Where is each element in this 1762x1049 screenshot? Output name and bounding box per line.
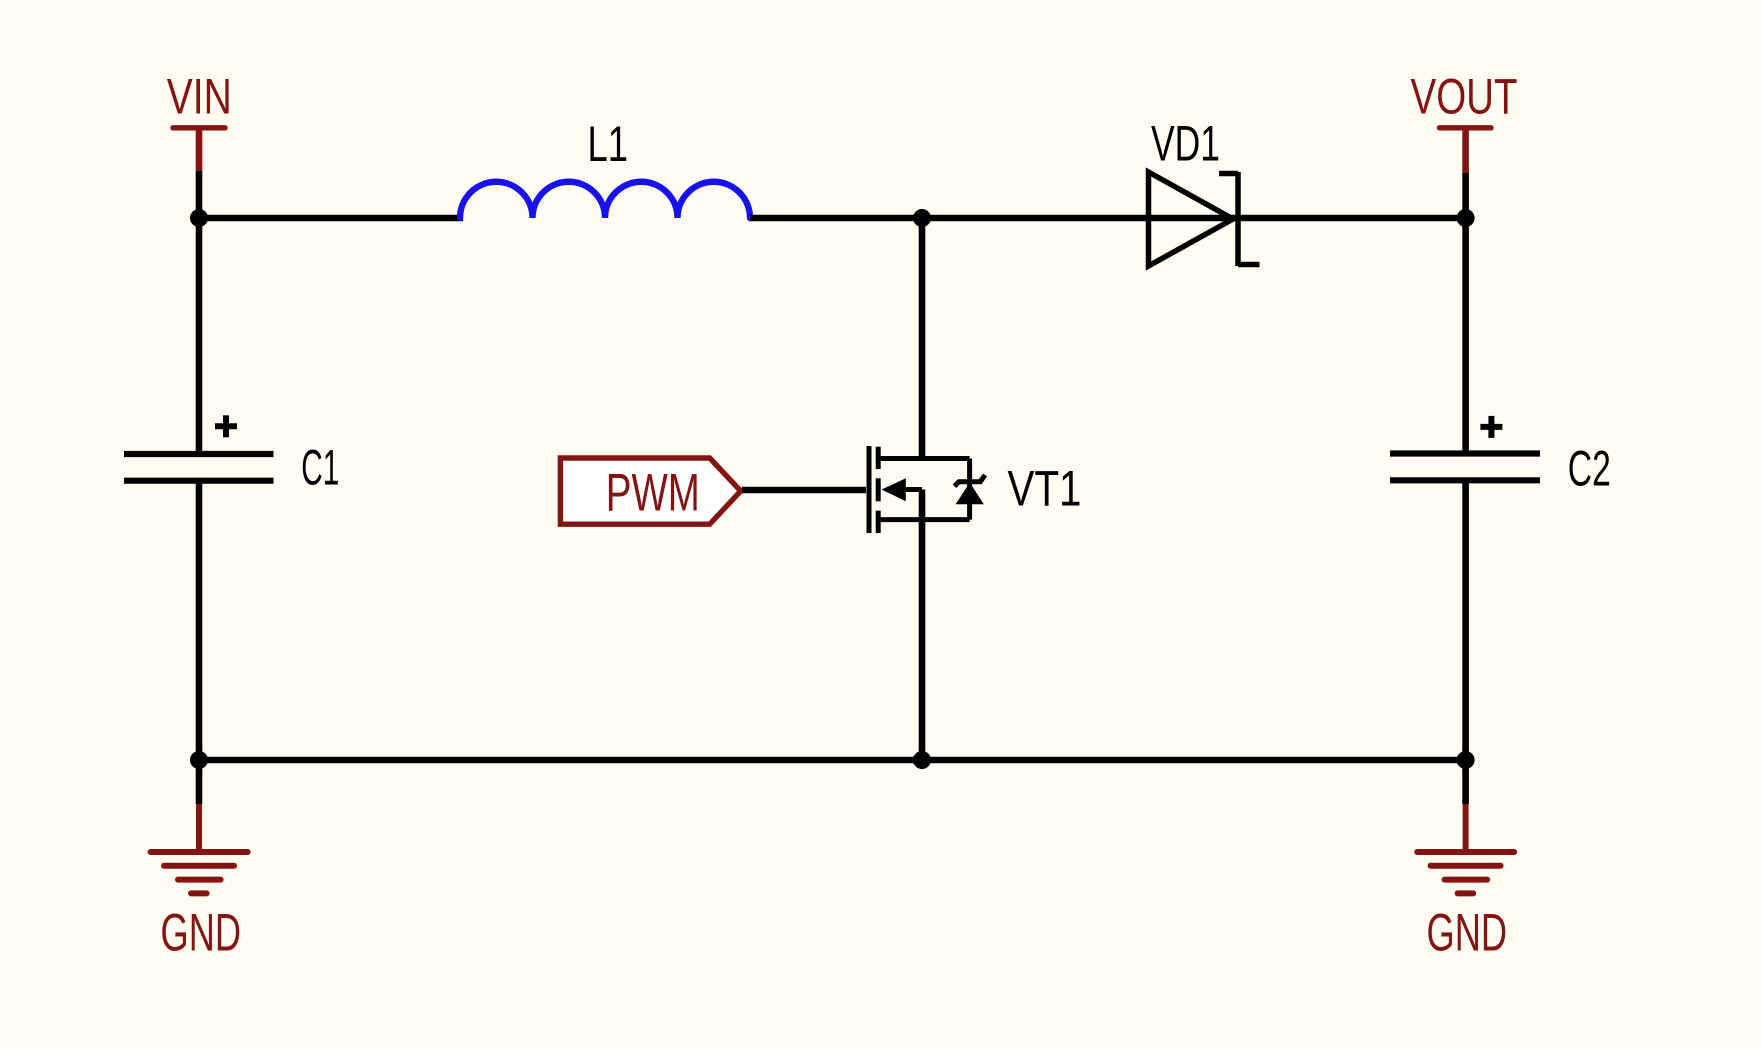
ground symbol left [151, 804, 248, 893]
body diode zener bar [955, 475, 986, 486]
svg-text:VT1: VT1 [1008, 461, 1082, 517]
plus sign C2 [1480, 416, 1502, 438]
wire left vertical lower (C1 to bottom rail) [196, 481, 203, 760]
global label PWM [560, 458, 740, 524]
wire PWM to gate [742, 487, 866, 494]
svg-text:L1: L1 [588, 116, 629, 172]
wire top rail left (VIN node to L1) [196, 171, 203, 218]
wire GND left stem [196, 760, 203, 804]
svg-text:GND: GND [161, 904, 242, 963]
wire left vertical upper (to C1) [196, 218, 203, 454]
svg-text:C2: C2 [1568, 441, 1611, 497]
wire GND right stem [1462, 760, 1469, 804]
wire top rail middle (L1 to VD1) [750, 215, 1148, 222]
svg-text:VIN: VIN [167, 69, 232, 125]
wire top rail horizontal left [199, 215, 463, 222]
capacitor C1 polarized [124, 454, 274, 481]
ground symbol right [1417, 804, 1514, 893]
inductor L1 [460, 182, 750, 218]
svg-text:VOUT: VOUT [1411, 69, 1518, 125]
wire drain vertical [919, 218, 926, 459]
junction dot drain node [913, 209, 931, 227]
body diode triangle [956, 483, 984, 505]
svg-text:C1: C1 [301, 440, 339, 496]
transistor VT1 (N-MOSFET with body diode) [869, 446, 970, 533]
svg-text:GND: GND [1427, 904, 1508, 963]
power flag VOUT [1440, 128, 1492, 173]
junction dot bottom left [190, 751, 208, 769]
wire top rail right (VD1 to VOUT node) [1238, 215, 1466, 222]
junction dot VIN node [190, 209, 208, 227]
junction dot bottom right [1457, 751, 1475, 769]
capacitor C2 polarized [1390, 454, 1540, 481]
diode VD1 (Schottky) [1148, 172, 1260, 266]
wire source vertical [919, 490, 926, 761]
svg-text:PWM: PWM [606, 464, 700, 523]
junction dot VOUT node [1457, 209, 1475, 227]
svg-text:VD1: VD1 [1151, 115, 1220, 171]
wire bottom rail [199, 757, 1466, 764]
plus sign C1 [215, 415, 237, 437]
wire right vertical lower (C2 to bottom rail) [1462, 480, 1469, 760]
power flag VIN [173, 128, 225, 171]
junction dot bottom center [913, 751, 931, 769]
MOSFET substrate arrow [882, 478, 906, 501]
wire right vertical upper (VOUT to C2) [1462, 173, 1469, 454]
